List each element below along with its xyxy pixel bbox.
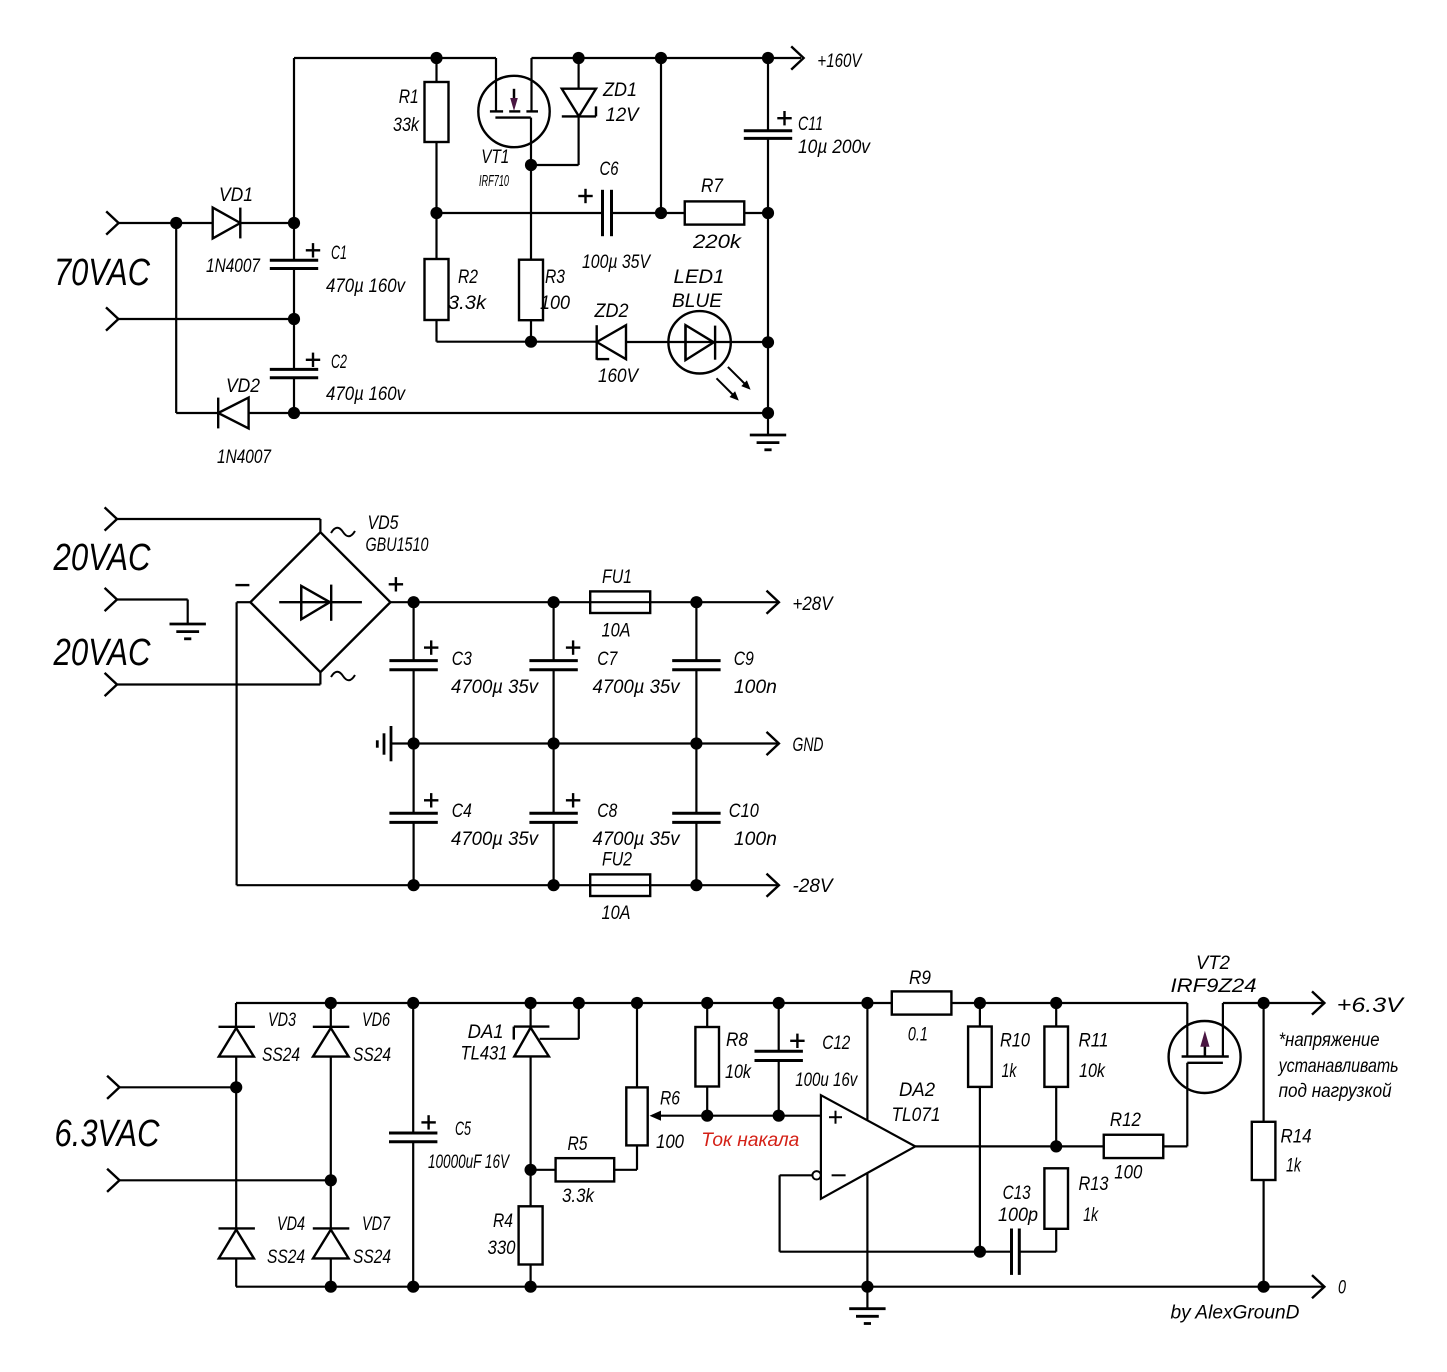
input terminal 6.3VAC line 2: [107, 1169, 119, 1192]
wire -28V rail: [237, 884, 778, 886]
wire VT2 gate lead: [1186, 1063, 1188, 1147]
wire GND rail: [392, 742, 779, 744]
svg-text:4700µ 35v: 4700µ 35v: [451, 829, 539, 850]
wire bottom return of 160V section: [294, 412, 768, 414]
shunt regulator DA1 (TL431): [529, 1003, 531, 1028]
svg-text:C7: C7: [597, 649, 618, 670]
LED1 light emission arrows: [728, 367, 749, 388]
svg-text:100n: 100n: [734, 829, 777, 850]
junction R7 right / C11 bottom: [762, 207, 774, 219]
diode VD2 (1N4007): [176, 412, 218, 414]
bridge rectifier VD5 (GBU1510): [250, 532, 390, 672]
transistor VT1 (IRF710) MOSFET: [478, 76, 549, 147]
svg-text:100µ 35V: 100µ 35V: [582, 252, 652, 273]
capacitor C7 (4700u 35v): [552, 602, 554, 660]
output terminal -28V: [767, 874, 779, 897]
svg-text:VT2: VT2: [1196, 953, 1230, 974]
wire top 160V rail left segment: [294, 57, 496, 59]
resistor R9 (0.1): [892, 991, 952, 1014]
svg-text:70VAC: 70VAC: [54, 252, 150, 294]
svg-text:C5: C5: [455, 1119, 471, 1140]
svg-text:10A: 10A: [602, 621, 631, 642]
junction +6.3V output / R14 top: [1258, 997, 1270, 1009]
junction VT1 gate / ZD1 / R3 node: [525, 159, 537, 171]
resistor R8 (10k): [706, 1003, 708, 1027]
wire op-amp -input feedback: [780, 1174, 813, 1176]
svg-text:R12: R12: [1110, 1110, 1141, 1131]
output terminal GND: [767, 732, 779, 755]
junction R1 bottom / C6 row: [430, 207, 442, 219]
junction C2 bottom / VD2 anode row: [288, 407, 300, 419]
svg-text:C10: C10: [729, 801, 759, 822]
wire op-amp output row: [915, 1145, 1104, 1147]
junction op-amp V+ branch: [861, 997, 873, 1009]
wire C6 row: [437, 212, 603, 214]
svg-text:VD6: VD6: [362, 1010, 390, 1031]
svg-text:100: 100: [1114, 1163, 1142, 1184]
diode VD7 (SS24): [330, 1180, 332, 1228]
wire input1 to VD3/VD4 column: [120, 1086, 237, 1088]
output terminal +6.3V: [1264, 1002, 1325, 1004]
svg-text:+28V: +28V: [793, 594, 835, 615]
svg-text:10000uF 16V: 10000uF 16V: [428, 1152, 511, 1173]
capacitor C2 (470u 160v): [270, 368, 318, 371]
junction R8 top rail: [701, 997, 713, 1009]
capacitor C13 (100p): [1010, 1229, 1013, 1275]
svg-text:VD2: VD2: [226, 376, 260, 397]
ground symbol op-amp: [866, 1287, 868, 1309]
input terminal 70VAC line 2: [106, 307, 118, 330]
junction bottom return / ground: [762, 407, 774, 419]
svg-text:LED1: LED1: [674, 267, 725, 288]
junction C6/R7 left: [655, 207, 667, 219]
svg-text:0.1: 0.1: [908, 1025, 928, 1046]
wire input2 to VD6/VD7 column: [120, 1179, 331, 1181]
resistor R10 (1k): [979, 1003, 981, 1027]
junction C5 top rail: [407, 997, 419, 1009]
svg-text:100: 100: [656, 1132, 684, 1153]
input terminal 70VAC line 1: [106, 211, 118, 234]
svg-text:330: 330: [488, 1238, 516, 1259]
wire VT1 gate node to ZD1: [531, 164, 579, 166]
resistor R14 (1k): [1262, 1003, 1264, 1122]
svg-text:R2: R2: [458, 267, 478, 288]
svg-text:R6: R6: [660, 1089, 680, 1110]
junction R4 bottom rail: [525, 1281, 537, 1293]
svg-text:VD3: VD3: [268, 1010, 296, 1031]
svg-text:R11: R11: [1079, 1031, 1109, 1052]
transistor VT2 (IRF9Z24) MOSFET: [1169, 1021, 1241, 1093]
wire input to bridge AC1: [117, 518, 320, 520]
svg-text:20VAC: 20VAC: [53, 632, 151, 674]
svg-text:SS24: SS24: [267, 1247, 305, 1268]
junction ZD1 top: [573, 52, 585, 64]
input terminal 20VAC center tap: [105, 588, 117, 611]
wire C11 column x=768: [767, 58, 769, 131]
svg-text:DA1: DA1: [468, 1022, 504, 1043]
fuse FU1 (10A): [590, 591, 650, 613]
capacitor C10 (100n): [695, 744, 697, 814]
svg-text:TL431: TL431: [461, 1044, 508, 1065]
svg-text:IRF9Z24: IRF9Z24: [1171, 976, 1257, 997]
svg-text:4700µ 35v: 4700µ 35v: [593, 677, 681, 698]
wire bridge minus to -28V rail: [237, 601, 251, 603]
junction R11 top rail: [1050, 997, 1062, 1009]
output terminal 0V: [1312, 1275, 1324, 1298]
ground mark GND rail left: [390, 726, 393, 761]
svg-text:SS24: SS24: [353, 1247, 391, 1268]
svg-text:220k: 220k: [692, 232, 743, 253]
junction C4 bottom: [408, 879, 420, 891]
resistor R4 (330): [519, 1206, 543, 1264]
svg-text:1N4007: 1N4007: [206, 256, 261, 277]
svg-text:R4: R4: [493, 1211, 513, 1232]
junction C1-C2 midpoint: [288, 313, 300, 325]
svg-text:TL071: TL071: [892, 1105, 941, 1126]
capacitor C9 (100n): [695, 602, 697, 660]
svg-text:4700µ 35v: 4700µ 35v: [593, 829, 681, 850]
svg-text:10µ 200v: 10µ 200v: [798, 137, 871, 158]
junction C6-branch top: [655, 52, 667, 64]
svg-text:C1: C1: [331, 243, 347, 264]
svg-text:0: 0: [1338, 1278, 1346, 1299]
svg-text:C11: C11: [798, 114, 823, 135]
svg-text:C9: C9: [734, 649, 754, 670]
junction R10 top rail: [974, 997, 986, 1009]
svg-text:+6.3V: +6.3V: [1337, 994, 1405, 1017]
wire vertical input1 down to VD2 row: [175, 223, 177, 413]
svg-text:6.3VAC: 6.3VAC: [55, 1113, 160, 1155]
svg-text:SS24: SS24: [353, 1045, 391, 1066]
wire +28V rail: [390, 601, 778, 603]
svg-text:R9: R9: [909, 968, 931, 989]
diode VD1 (1N4007): [213, 208, 241, 239]
svg-text:C8: C8: [597, 801, 617, 822]
capacitor C11 (10u 200v): [744, 129, 792, 132]
capacitor C5 (10000uF 16V): [412, 1003, 414, 1133]
junction C10 bottom: [690, 879, 702, 891]
wire input to bridge AC2: [117, 683, 320, 685]
svg-text:10k: 10k: [725, 1062, 752, 1083]
svg-text:устанавливать: устанавливать: [1277, 1056, 1399, 1077]
junction input2 / VD6 anode: [325, 1174, 337, 1186]
wire wiper row to op-amp +input: [707, 1115, 821, 1117]
resistor R1 (33k): [435, 58, 437, 82]
junction input1 / VD2 branch: [170, 217, 182, 229]
wire input1 to VD1: [119, 222, 213, 224]
svg-text:под нагрузкой: под нагрузкой: [1279, 1081, 1392, 1102]
capacitor C4 (4700u 35v): [413, 744, 415, 814]
svg-text:VD5: VD5: [368, 513, 399, 534]
junction VD6 top rail: [325, 997, 337, 1009]
svg-text:R5: R5: [568, 1134, 588, 1155]
svg-text:ZD2: ZD2: [594, 301, 629, 322]
LED LED1 (BLUE): [668, 311, 730, 373]
capacitor C12 (100u 16v): [778, 1003, 780, 1051]
op-amp DA2 (TL071): [821, 1095, 915, 1199]
svg-text:C2: C2: [331, 352, 347, 373]
svg-text:100u 16v: 100u 16v: [795, 1070, 858, 1091]
svg-text:100: 100: [540, 293, 570, 314]
svg-text:470µ 160v: 470µ 160v: [326, 276, 406, 297]
svg-text:4700µ 35v: 4700µ 35v: [451, 677, 539, 698]
svg-text:R7: R7: [701, 176, 724, 197]
svg-text:GND: GND: [793, 735, 824, 756]
junction C7 top: [548, 596, 560, 608]
junction C3 top: [408, 596, 420, 608]
svg-text:GBU1510: GBU1510: [366, 535, 429, 556]
output terminal +160V: [791, 46, 803, 69]
svg-text:20VAC: 20VAC: [53, 537, 151, 579]
junction DA1 anode / R5 / R4: [525, 1164, 537, 1176]
svg-text:12V: 12V: [606, 105, 641, 126]
svg-text:BLUE: BLUE: [672, 291, 722, 312]
svg-text:SS24: SS24: [262, 1045, 300, 1066]
svg-text:R14: R14: [1281, 1127, 1312, 1148]
ground symbol center tap: [187, 600, 189, 625]
wire C6 branch vertical: [660, 58, 662, 213]
diode VD3 (SS24): [219, 1026, 255, 1028]
junction R1 top: [430, 52, 442, 64]
capacitor C6 (100u 35V): [601, 190, 604, 236]
junction R8 / wiper row: [701, 1110, 713, 1122]
junction C12 / wiper row: [773, 1110, 785, 1122]
wire input2 to C1/C2 midpoint: [118, 318, 294, 320]
svg-text:VD7: VD7: [362, 1214, 391, 1235]
junction C5 bottom rail: [407, 1281, 419, 1293]
junction GND/C3-C4: [408, 737, 420, 749]
wire 6.3V bottom rail (0V): [236, 1286, 1324, 1288]
svg-text:100p: 100p: [998, 1205, 1038, 1226]
svg-text:FU2: FU2: [602, 850, 632, 871]
junction op-amp V- bottom rail: [861, 1281, 873, 1293]
svg-text:R3: R3: [545, 267, 565, 288]
potentiometer R6 (100): [636, 1003, 638, 1087]
junction C12 top rail: [773, 997, 785, 1009]
input terminal 6.3VAC line 1: [107, 1076, 119, 1099]
resistor R13 (1k): [1044, 1168, 1068, 1229]
svg-text:R10: R10: [1000, 1031, 1030, 1052]
resistor R11 (10k): [1055, 1003, 1057, 1027]
diode VD6 (SS24): [330, 1003, 332, 1027]
output terminal +28V: [767, 591, 779, 614]
svg-text:R1: R1: [399, 87, 419, 108]
input terminal 20VAC line 2: [105, 673, 117, 696]
svg-text:10k: 10k: [1079, 1061, 1106, 1082]
svg-text:C6: C6: [600, 159, 619, 180]
svg-text:VD4: VD4: [277, 1214, 305, 1235]
svg-text:VD1: VD1: [219, 185, 253, 206]
diode VD4 (SS24): [219, 1227, 255, 1229]
svg-text:*напряжение: *напряжение: [1279, 1030, 1380, 1051]
zener diode ZD2 (160V): [596, 325, 598, 360]
wire VD3-VD4 column: [235, 1087, 237, 1228]
svg-text:by AlexGrounD: by AlexGrounD: [1171, 1303, 1300, 1324]
svg-text:10A: 10A: [602, 903, 631, 924]
svg-text:R8: R8: [726, 1030, 748, 1051]
junction C9 top: [690, 596, 702, 608]
svg-text:3.3k: 3.3k: [448, 293, 488, 314]
input terminal 20VAC line 1: [105, 507, 117, 530]
junction feedback / R10 bottom: [974, 1246, 986, 1258]
svg-text:DA2: DA2: [899, 1080, 935, 1101]
svg-text:ZD1: ZD1: [602, 80, 637, 101]
wire C1/C2 column x=294: [293, 58, 295, 260]
junction R6 top rail: [631, 997, 643, 1009]
resistor R3 (100): [530, 165, 532, 260]
junction GND/C7-C8: [548, 737, 560, 749]
svg-text:1k: 1k: [1083, 1205, 1099, 1226]
capacitor C1 (470u 160v): [270, 259, 318, 262]
fuse FU2 (10A): [590, 874, 650, 896]
svg-text:470µ 160v: 470µ 160v: [326, 384, 406, 405]
ground symbol 160V section: [767, 413, 769, 435]
svg-text:1N4007: 1N4007: [217, 447, 272, 468]
svg-text:IRF710: IRF710: [479, 173, 509, 190]
svg-text:C4: C4: [452, 801, 472, 822]
wire center tap to ground: [117, 598, 188, 600]
junction C11 top / +160V takeoff: [762, 52, 774, 64]
svg-text:VT1: VT1: [481, 147, 509, 168]
svg-text:+160V: +160V: [817, 51, 863, 72]
svg-text:R13: R13: [1079, 1174, 1109, 1195]
junction R3 bottom: [525, 336, 537, 348]
capacitor C3 (4700u 35v): [413, 602, 415, 660]
junction C8 bottom: [548, 879, 560, 891]
resistor R2 (3.3k): [425, 259, 449, 320]
svg-text:C13: C13: [1003, 1183, 1031, 1204]
capacitor C8 (4700u 35v): [552, 744, 554, 814]
junction GND/C9-C10: [690, 737, 702, 749]
svg-text:33k: 33k: [393, 115, 420, 136]
svg-text:1k: 1k: [1286, 1156, 1302, 1177]
resistor R7 (220k): [685, 201, 745, 224]
junction DA1 ref top rail: [573, 997, 585, 1009]
junction VD7 bottom rail: [325, 1281, 337, 1293]
svg-text:3.3k: 3.3k: [562, 1186, 595, 1207]
svg-text:C12: C12: [822, 1033, 850, 1054]
svg-text:FU1: FU1: [602, 567, 632, 588]
svg-text:100n: 100n: [734, 677, 777, 698]
resistor R5 (3.3k): [531, 1169, 556, 1171]
svg-text:Ток накала: Ток накала: [701, 1130, 799, 1151]
junction R14 bottom rail: [1258, 1281, 1270, 1293]
junction LED1 cathode / 160V return column: [762, 336, 774, 348]
junction input1 / VD3 anode: [230, 1081, 242, 1093]
junction output / R11 / R13: [1050, 1140, 1062, 1152]
svg-text:1k: 1k: [1002, 1061, 1018, 1082]
junction DA1 cathode top rail: [525, 997, 537, 1009]
junction VD1 cathode / C1 top: [288, 217, 300, 229]
svg-text:160V: 160V: [598, 366, 640, 387]
svg-text:C3: C3: [452, 649, 472, 670]
svg-text:-28V: -28V: [793, 876, 835, 897]
wire 6.3V top rail: [236, 1002, 1187, 1004]
wire R2/R3 bottom row: [437, 341, 597, 343]
resistor R12 (100): [1104, 1135, 1164, 1158]
zener diode ZD1 (12V): [577, 58, 579, 89]
wire top 160V rail right segment: [532, 57, 802, 59]
